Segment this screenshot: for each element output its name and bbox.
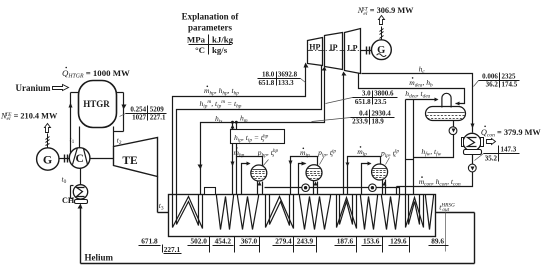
steam drum ip (D2)	[306, 165, 322, 181]
svg-text:3800.6: 3800.6	[374, 90, 394, 98]
wire: deaerator steam m_dea h_b	[359, 74, 465, 104]
steam drum hp (D1)	[251, 165, 267, 181]
HRSG duct	[169, 195, 436, 237]
parameter block 0.254|5209 1027|227.1	[126, 113, 167, 115]
svg-text:5209: 5209	[150, 106, 165, 114]
svg-text:454.2: 454.2	[215, 236, 232, 245]
svg-text:153.6: 153.6	[363, 236, 380, 245]
label m_hp	[236, 147, 238, 149]
svg-text:227.1: 227.1	[150, 114, 166, 122]
svg-text:147.3: 147.3	[501, 146, 517, 154]
deaerator tank	[426, 107, 466, 121]
wire m_ip from drum D2 to superheater	[291, 157, 318, 195]
turbine LP	[345, 29, 361, 74]
wire: ip steam riser with boxed label	[232, 123, 234, 195]
wire L2: HP exhaust to reheater	[177, 66, 322, 195]
svg-text:227.1: 227.1	[164, 245, 181, 254]
svg-text:502.0: 502.0	[190, 236, 207, 245]
wire L3: reheated steam to IP turbine	[201, 68, 325, 195]
svg-text:671.8: 671.8	[141, 236, 158, 245]
svg-text:Helium: Helium	[85, 253, 114, 263]
svg-text:2325: 2325	[502, 72, 517, 80]
wire m_hp from drum D1 to superheater	[237, 157, 263, 195]
svg-text:parameters: parameters	[188, 23, 232, 33]
wire h_dea t_dea into deaerator	[406, 99, 438, 101]
cooler CH	[73, 185, 87, 199]
electrical zigzag lead G2	[381, 27, 383, 40]
svg-text:HTGR: HTGR	[83, 99, 110, 109]
wire h_fw t_fw	[414, 135, 454, 158]
wire: helium hot leg (right pipe to TE)	[117, 92, 124, 94]
wire economizer to drum D3	[362, 164, 371, 195]
wire m_lp from drum D3 (to LP superheater)	[348, 157, 381, 195]
label m_dea h_b	[412, 77, 414, 79]
svg-text:35.2: 35.2	[485, 154, 498, 162]
electrical zigzag lead G1	[47, 134, 49, 148]
svg-text:1027: 1027	[132, 114, 147, 122]
wire: C to CH	[80, 169, 82, 185]
wire: helium return bottom line	[81, 263, 475, 265]
svg-text:18.9: 18.9	[372, 118, 385, 126]
header box on duct top	[205, 188, 216, 195]
parameter block 0.006|2325 36.2|174.5	[479, 80, 520, 82]
coil E: zigzag	[300, 195, 331, 230]
svg-text:0.4: 0.4	[359, 110, 368, 118]
label m_hp h_hp t_hp	[207, 86, 209, 88]
wire: LP exhaust h_c to condenser	[362, 74, 473, 133]
parameter block 18.0|3692.8 651.8|133.3	[258, 78, 301, 80]
svg-text:174.5: 174.5	[502, 81, 518, 89]
wire downcomers D3	[382, 180, 384, 195]
svg-text:23.5: 23.5	[374, 98, 387, 106]
svg-text:LP: LP	[347, 44, 357, 53]
turbine HP	[308, 38, 323, 66]
shaft coupling G1-C	[60, 158, 70, 160]
coil B: zigzag	[217, 195, 234, 230]
svg-text:kJ/kg: kJ/kg	[212, 35, 234, 45]
svg-text:129.6: 129.6	[390, 236, 407, 245]
svg-text:TE: TE	[122, 155, 138, 167]
svg-text:233.9: 233.9	[352, 118, 368, 126]
feedwater pump below deaerator	[453, 121, 455, 127]
svg-text:89.6: 89.6	[431, 236, 444, 245]
coil D: evaporator (double W)	[266, 195, 294, 229]
generator G2	[372, 40, 392, 60]
wire m_con h_con t_con	[397, 172, 473, 187]
block arrow up (ST power)	[379, 16, 385, 25]
svg-text:Explanation of: Explanation of	[182, 12, 240, 22]
wire: helium cold leg (left pipe into vessel)	[71, 92, 79, 94]
wire: lp steam riser to LP turbine	[343, 73, 345, 195]
label m_ip	[303, 148, 305, 150]
shaft coupling ST-G2	[361, 50, 372, 52]
label Q_HTGR = 1000 MW	[65, 67, 67, 69]
wire downcomers D2	[313, 181, 315, 195]
shaft dash-dot line	[308, 50, 363, 52]
svg-text:Uranium: Uranium	[16, 83, 52, 93]
svg-text:18.0: 18.0	[262, 71, 275, 79]
parameter block 0.4|2930.4 233.9|18.9	[351, 117, 395, 119]
wire: TE exhaust to HRSG	[157, 177, 159, 213]
label box h_ip t_ip = t_s_hp	[231, 130, 285, 144]
svg-text:°C: °C	[195, 45, 205, 55]
block arrow up (TE power)	[45, 124, 51, 133]
parameter block 3.0|3800.6 651.8|23.5	[353, 97, 398, 99]
wire economizer to drum D1	[242, 164, 250, 195]
svg-text:3.0: 3.0	[362, 90, 371, 98]
pump circulation P2 on water line	[302, 184, 310, 192]
generator G1	[37, 148, 59, 170]
svg-text:0.006: 0.006	[482, 72, 498, 80]
svg-text:CH: CH	[62, 196, 75, 205]
svg-text:MPa: MPa	[187, 35, 206, 45]
wire L1: main hp steam line to HP turbine	[173, 65, 306, 195]
coil C: zigzag	[238, 195, 259, 230]
turbine IP	[325, 33, 343, 70]
compressor C	[69, 148, 90, 169]
svg-text:kg/s: kg/s	[212, 45, 228, 55]
turbine TE (helium)	[114, 138, 158, 177]
svg-text:36.2: 36.2	[486, 81, 499, 89]
svg-text:0.254: 0.254	[130, 106, 146, 114]
steam drum lp (D3)	[372, 164, 388, 180]
wire downcomers D1	[257, 181, 259, 195]
svg-text:243.9: 243.9	[297, 236, 314, 245]
svg-text:651.8: 651.8	[355, 98, 371, 106]
parameter block 147.3 35.2	[484, 153, 520, 155]
svg-text:2930.4: 2930.4	[372, 110, 392, 118]
coil I: condensate preheater (double W + V)	[406, 195, 424, 228]
label m_lp	[360, 146, 362, 148]
condenser	[463, 133, 481, 151]
pump circulation P3 on water line	[369, 184, 377, 192]
svg-text:3692.8: 3692.8	[278, 71, 298, 79]
label m_con h_con t_con	[421, 176, 423, 178]
wire lp feed lines down to economizers	[405, 100, 407, 195]
block arrow Q_con	[487, 139, 496, 145]
svg-text:367.0: 367.0	[241, 236, 258, 245]
deaerator dome	[442, 93, 451, 107]
svg-text:651.8: 651.8	[259, 79, 275, 87]
label Q_con = 379.9 MW	[484, 126, 486, 128]
wire: drum interconnect water line	[265, 187, 302, 189]
svg-text:G: G	[43, 152, 52, 166]
wire economizer to drum D2	[299, 164, 306, 195]
svg-text:C: C	[75, 153, 83, 165]
coil A: hp superheater/reheater (double W)	[173, 195, 203, 229]
svg-text:133.3: 133.3	[278, 79, 294, 87]
coil G: zigzag	[361, 195, 378, 230]
reactor HTGR vessel	[79, 81, 117, 128]
svg-text:187.6: 187.6	[337, 236, 354, 245]
wire: shaft C-TE	[90, 158, 114, 160]
coil H: zigzag	[382, 195, 400, 230]
condensate pump	[472, 155, 474, 165]
coil F: evaporator (double W)	[337, 195, 357, 229]
svg-text:279.4: 279.4	[275, 236, 292, 245]
